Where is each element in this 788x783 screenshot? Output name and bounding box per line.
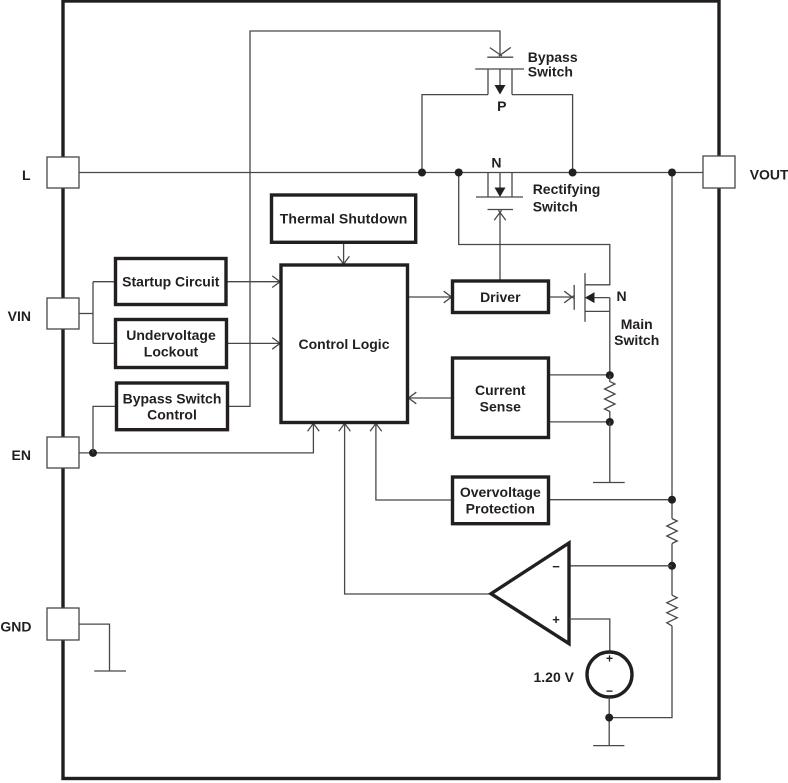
wire: Driver top to rectifying switch gate: [499, 212, 501, 282]
wire: Driver right to main switch gate: [549, 296, 574, 298]
wire: bypass switch drain down to VOUT rail: [512, 95, 573, 173]
wire: sense resistor to ground: [609, 422, 611, 482]
block Overvoltage Protection: [453, 477, 549, 524]
svg-text:Control Logic: Control Logic: [299, 336, 390, 352]
svg-text:Switch: Switch: [533, 199, 578, 215]
svg-text:Undervoltage: Undervoltage: [126, 327, 216, 343]
block Driver: [453, 281, 549, 313]
junction sense resistor bottom: [606, 418, 614, 426]
svg-text:−: −: [552, 559, 560, 574]
pin VOUT: [703, 156, 788, 188]
wire: comparator output to Control Logic bottom: [345, 423, 491, 595]
wire: Current Sense to Control Logic: [408, 397, 453, 399]
svg-text:Overvoltage: Overvoltage: [460, 484, 541, 500]
svg-text:EN: EN: [12, 447, 31, 463]
junction L rail / bypass source: [418, 169, 426, 177]
svg-text:GND: GND: [0, 618, 31, 634]
svg-text:Switch: Switch: [528, 63, 573, 79]
transistor bypass switch (PMOS): [475, 57, 524, 94]
svg-text:Sense: Sense: [480, 398, 521, 414]
wire: Overvoltage Protection right to feedback node: [549, 499, 673, 501]
svg-text:1.20 V: 1.20 V: [534, 669, 575, 685]
wire: divider bottom to reference node: [609, 626, 672, 718]
svg-text:−: −: [606, 684, 613, 698]
wire: reference bottom to ground: [608, 697, 610, 746]
svg-text:Startup Circuit: Startup Circuit: [122, 274, 220, 290]
svg-text:Current: Current: [475, 382, 526, 398]
svg-text:Control: Control: [147, 407, 197, 423]
wire: divider mid segment: [671, 544, 673, 596]
svg-text:+: +: [552, 612, 560, 627]
svg-text:P: P: [497, 98, 506, 114]
ground (GND pin): [94, 670, 126, 672]
svg-text:Bypass Switch: Bypass Switch: [123, 390, 222, 406]
svg-text:+: +: [606, 652, 613, 666]
wire: Control Logic to Driver: [408, 296, 453, 298]
transistor rectifying switch (NMOS): [476, 173, 523, 210]
svg-text:N: N: [491, 155, 501, 171]
wire: Current Sense top tap: [549, 374, 610, 376]
svg-text:Main: Main: [621, 316, 653, 332]
junction VOUT rail / feedback: [668, 169, 676, 177]
svg-text:VIN: VIN: [8, 308, 31, 324]
wire: comparator non-inverting input to reference: [569, 619, 610, 651]
wire: rail branch down to main switch drain: [459, 173, 610, 285]
wire: L rail up-branch to bypass switch source: [422, 95, 488, 173]
comparator U1: [491, 543, 569, 644]
junction EN node: [89, 449, 97, 457]
svg-text:N: N: [617, 288, 627, 304]
wire: GND pin to ground symbol: [79, 624, 110, 671]
resistor sense: [605, 375, 615, 422]
block Startup Circuit: [116, 259, 227, 305]
ground (reference): [593, 745, 624, 747]
wire: feedback divider from VOUT rail: [671, 173, 673, 519]
resistor divider top R: [667, 519, 677, 544]
pin EN: [12, 437, 79, 468]
junction divider mid / comparator input: [668, 562, 676, 570]
block Thermal Shutdown: [272, 195, 416, 242]
junction VOUT rail / bypass drain: [569, 169, 577, 177]
pin L: [22, 157, 79, 188]
wire: Current Sense bottom tap: [549, 421, 610, 423]
junction OVP / divider: [668, 496, 676, 504]
pin VIN: [8, 298, 79, 329]
wire: Startup Circuit output to Control Logic: [226, 281, 281, 283]
svg-text:VOUT: VOUT: [750, 166, 788, 182]
voltage reference 1.20 V: [587, 652, 632, 699]
ground (main switch source): [593, 482, 625, 484]
svg-text:L: L: [22, 167, 31, 183]
junction reference / divider return: [605, 714, 613, 722]
block Bypass Switch Control: [117, 383, 228, 430]
svg-text:Lockout: Lockout: [144, 343, 199, 359]
wire: divider mid to comparator inverting input: [569, 565, 672, 567]
block Control Logic: [281, 265, 408, 423]
svg-text:Switch: Switch: [614, 332, 659, 348]
pin GND: [0, 608, 79, 640]
wire: EN node up to Bypass Switch Control: [93, 406, 117, 453]
wire: Thermal Shutdown to Control Logic: [343, 242, 345, 265]
wire: Undervoltage Lockout output to Control Logic: [227, 342, 282, 344]
wire: EN rail to Control Logic bottom: [79, 423, 313, 453]
junction rail / main switch drain: [455, 169, 463, 177]
wire: VIN split to Startup Circuit and Undervoltage Lockout: [79, 313, 93, 315]
wire: Overvoltage Protection to Control Logic bottom: [376, 423, 453, 501]
transistor main switch (NMOS): [574, 273, 610, 375]
wire: Bypass Switch Control output up to bypass switch gate: [228, 31, 501, 406]
junction sense resistor top: [606, 371, 614, 379]
svg-text:Driver: Driver: [480, 289, 521, 305]
resistor divider bottom R: [667, 595, 677, 626]
svg-text:Protection: Protection: [466, 501, 535, 517]
wire: main rail L to VOUT: [79, 172, 703, 174]
block Undervoltage Lockout: [116, 320, 227, 368]
svg-text:Rectifying: Rectifying: [533, 181, 601, 197]
block Current Sense: [453, 358, 549, 438]
svg-text:Thermal Shutdown: Thermal Shutdown: [280, 211, 408, 227]
